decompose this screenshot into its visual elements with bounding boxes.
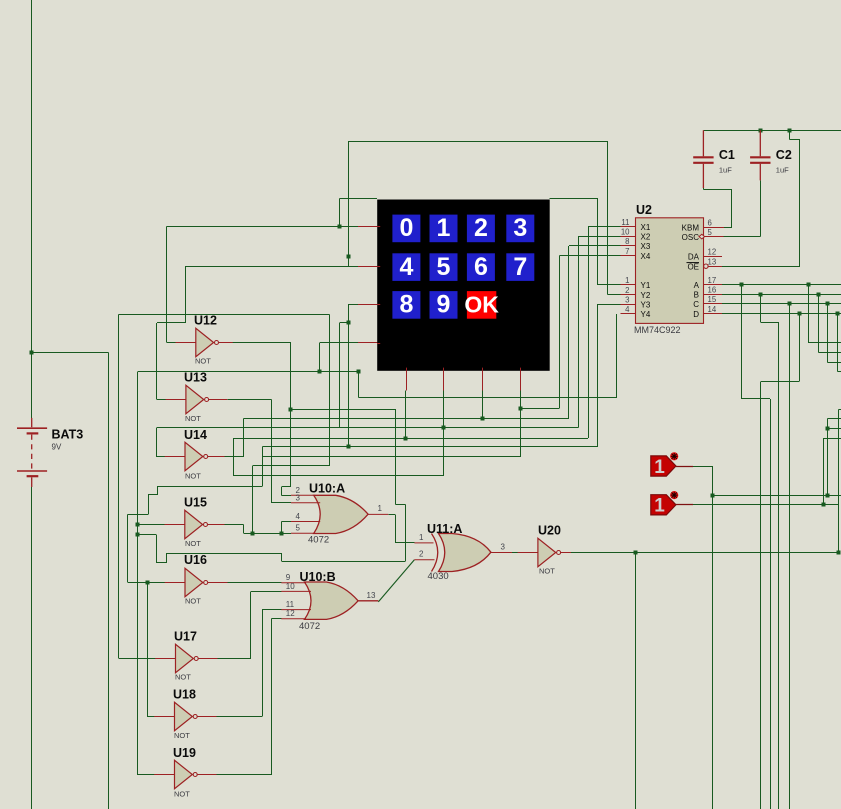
svg-text:4072: 4072: [299, 621, 320, 632]
keypad button 8: [392, 291, 420, 319]
svg-text:7: 7: [625, 247, 629, 256]
wire jog y139: [790, 139, 800, 141]
svg-text:7: 7: [513, 253, 527, 281]
svg-text:NOT: NOT: [185, 472, 201, 481]
junction U15 input tap: [136, 523, 140, 527]
wire up to X4 pin: [559, 256, 561, 408]
wire x262 up: [262, 610, 264, 717]
OR gate U10:B 4072: [305, 582, 359, 619]
wire C1 elbow h: [703, 189, 731, 191]
junction y371 x319: [318, 370, 322, 374]
svg-text:NOT: NOT: [185, 597, 201, 606]
svg-text:13: 13: [708, 257, 717, 266]
pin ticks keypad rows: [377, 226, 380, 228]
wire y533 pin5 line: [244, 533, 291, 535]
wire C down x789: [789, 304, 791, 809]
pin 2 U11:A: [414, 559, 434, 561]
svg-text:0: 0: [399, 214, 413, 242]
junction right x838: [837, 551, 841, 555]
wire U10B pin11 horizontal: [262, 609, 281, 611]
wire x712 down: [712, 466, 714, 809]
capacitor C1: [702, 130, 704, 156]
wire zig y534: [138, 534, 156, 536]
wire x250 up: [250, 591, 252, 658]
svg-text:U14: U14: [184, 428, 207, 442]
wire into Y2: [607, 294, 620, 296]
svg-text:U11:A: U11:A: [427, 522, 462, 536]
svg-text:U12: U12: [194, 314, 217, 328]
wire exit y409: [838, 409, 841, 411]
wire B jog y322: [761, 322, 779, 324]
pin U2 D: [704, 313, 723, 315]
junction C2n: [826, 302, 830, 306]
wire into X1: [588, 226, 620, 228]
wire up to X2 pin: [578, 236, 580, 428]
junction U20 out: [634, 551, 638, 555]
wire row0 down to U12: [166, 227, 168, 342]
OR gate U10:A 4072: [314, 495, 368, 533]
wire y457 col4 line: [263, 456, 521, 458]
wire up to X3 pin: [568, 246, 570, 419]
junction A2: [807, 283, 811, 287]
wire U19 output horizontal: [217, 774, 272, 776]
NOT gate U12: [196, 328, 214, 356]
wire fan Y4 y397: [359, 397, 617, 399]
wire row0 horizontal: [166, 226, 358, 228]
wire x137 down to U19: [137, 371, 139, 775]
svg-text:9: 9: [286, 573, 291, 582]
svg-text:NOT: NOT: [174, 731, 190, 740]
wire up to Y4 pin: [616, 314, 618, 398]
wire D horizontal: [722, 313, 841, 315]
wire x329 vertical: [329, 315, 331, 466]
svg-text:9V: 9V: [52, 443, 62, 452]
junction x827 y428: [826, 427, 830, 431]
wire D down x799: [799, 314, 801, 382]
svg-text:Y2: Y2: [641, 291, 651, 300]
svg-text:C2: C2: [776, 148, 792, 162]
wire x395 down to pin1: [395, 515, 397, 543]
svg-text:13: 13: [367, 591, 376, 600]
junction x252 y533: [251, 532, 255, 536]
wire row2 branch jog: [340, 322, 349, 324]
wire U17 output horizontal: [218, 658, 251, 660]
wire C2 down: [827, 304, 829, 363]
svg-text:U18: U18: [173, 688, 196, 702]
wire x127 vertical: [127, 515, 129, 583]
svg-text:1uF: 1uF: [776, 166, 789, 175]
pin U2 left y294: [621, 294, 636, 296]
wire battery top vertical: [31, 0, 33, 418]
pin 3 U11:A output: [491, 552, 512, 554]
svg-text:X4: X4: [641, 252, 651, 261]
svg-text:U20: U20: [538, 524, 561, 538]
wire x243 down: [243, 524, 245, 533]
wire jog y486: [282, 486, 291, 488]
wire U10A pin2 horizontal: [282, 495, 291, 497]
NOT gate U18: [175, 702, 193, 730]
junction A1: [740, 283, 744, 287]
junction U18 tap on U16 line: [146, 581, 150, 585]
wire x118 down to U17: [118, 315, 120, 659]
keypad button 6: [467, 253, 495, 281]
svg-text:U15: U15: [184, 496, 207, 510]
pin 2 U10:A 4072: [291, 494, 315, 496]
pin 11 U10:B 4072: [281, 609, 311, 611]
wire x827 vertical: [827, 418, 829, 495]
wire exit y428: [827, 428, 841, 430]
wire vertical x348 top: [348, 141, 350, 266]
svg-text:BAT3: BAT3: [52, 428, 84, 442]
svg-text:5: 5: [708, 228, 713, 237]
svg-text:12: 12: [286, 609, 295, 618]
svg-text:OK: OK: [464, 292, 499, 318]
wire x243 riser: [243, 418, 245, 457]
junction y495 x827: [826, 494, 830, 498]
wire x823 vertical: [823, 438, 825, 505]
pin keypad row0: [358, 226, 378, 228]
svg-text:OSC: OSC: [682, 233, 700, 242]
svg-text:Y4: Y4: [641, 310, 651, 319]
junction col4 X4: [519, 407, 523, 411]
wire U13 output horizontal: [227, 399, 271, 401]
svg-text:4030: 4030: [428, 571, 449, 582]
pin U2 A: [704, 284, 723, 286]
svg-text:1uF: 1uF: [719, 166, 732, 175]
svg-text:10: 10: [621, 227, 630, 236]
svg-text:4: 4: [296, 512, 301, 521]
wire exit y438: [823, 438, 841, 440]
wire x290 down: [290, 342, 292, 487]
wire y495 horizontal: [712, 495, 841, 497]
svg-text:6: 6: [474, 253, 488, 281]
wire x635 down: [635, 552, 637, 809]
svg-text:10: 10: [286, 582, 295, 591]
wire exit y371r: [837, 371, 841, 373]
wire zig y494: [148, 494, 158, 496]
NOT gate U17: [176, 644, 194, 672]
wire into Y1: [598, 284, 621, 286]
wire battery bottom vertical: [31, 487, 33, 809]
wire U10A output elbow: [388, 514, 395, 516]
svg-text:Y1: Y1: [641, 281, 651, 290]
junction C2 top: [759, 129, 763, 133]
svg-text:Y3: Y3: [641, 300, 651, 309]
svg-text:X2: X2: [641, 232, 651, 241]
pin 9 U10:B 4072: [281, 582, 306, 584]
svg-text:3: 3: [296, 493, 301, 502]
svg-text:OE: OE: [687, 262, 699, 271]
svg-text:D: D: [693, 310, 699, 319]
wire x262 vertical: [262, 447, 264, 487]
wire OSC horizontal: [723, 236, 760, 238]
junction U12 branch: [289, 408, 293, 412]
battery BAT3: [17, 418, 47, 487]
wire x233 down to col2 line: [233, 438, 235, 476]
wire vertical to Y1: [597, 198, 599, 285]
wire U12 output horizontal: [233, 342, 291, 344]
wire y475 col2 line: [234, 475, 444, 477]
wire fan X4 y408: [521, 408, 560, 410]
wire zig y562: [156, 562, 167, 564]
wire fan X2 y427: [157, 427, 579, 429]
junction row2 branch: [347, 321, 351, 325]
svg-text:MM74C922: MM74C922: [634, 325, 681, 335]
wire U13 input green: [157, 399, 167, 401]
pin U2 left y226: [621, 226, 636, 228]
wire U11 pin1 horizontal: [395, 542, 414, 544]
wire B2 down: [818, 294, 820, 352]
wire jog y504b: [396, 504, 406, 506]
wire B horizontal: [722, 294, 841, 296]
svg-text:12: 12: [708, 248, 717, 257]
wire A down x741: [741, 285, 743, 399]
pin U2 KBM: [704, 227, 724, 229]
wire x838 vertical: [838, 410, 840, 553]
wire U16 input horizontal: [127, 582, 166, 584]
svg-text:3: 3: [513, 214, 527, 242]
NOT gate U19: [175, 760, 193, 788]
chip U2 MM74C922 body: [636, 218, 704, 324]
wire keypad top-left y198: [339, 198, 377, 200]
svg-text:C1: C1: [719, 148, 735, 162]
wire pin4 vertical: [281, 522, 283, 534]
junction OE net top: [788, 129, 792, 133]
svg-text:1: 1: [419, 533, 424, 542]
wire x799 down to OE: [799, 140, 801, 267]
wire down to U13 input: [156, 323, 158, 400]
pin U2 B: [704, 294, 723, 296]
svg-text:U16: U16: [184, 553, 207, 567]
wire row3 horizontal: [320, 342, 359, 344]
svg-text:15: 15: [708, 295, 717, 304]
pin keypad row2: [358, 304, 378, 306]
wire exit y418: [827, 418, 841, 420]
svg-text:9: 9: [437, 291, 451, 319]
wire keypad top-right y198: [550, 198, 598, 200]
wire A horizontal: [722, 284, 841, 286]
wire into Y3: [598, 304, 621, 306]
wire zig y514: [127, 514, 148, 516]
svg-text:KBM: KBM: [682, 224, 700, 233]
svg-text:U17: U17: [174, 630, 197, 644]
junction B1: [759, 293, 763, 297]
svg-text:2: 2: [419, 550, 424, 559]
svg-text:NOT: NOT: [539, 567, 555, 576]
wire row2 branch down x339: [339, 323, 341, 428]
wire U19 input horizontal: [138, 774, 155, 776]
NOT gate U15: [185, 510, 203, 538]
NOT gate U13: [186, 385, 204, 413]
pin 5 U10:A 4072: [291, 532, 315, 534]
svg-text:NOT: NOT: [175, 673, 191, 682]
wire exit y352: [818, 352, 841, 354]
svg-text:NOT: NOT: [195, 357, 211, 366]
wire fan X3 y418: [244, 418, 570, 420]
wire U10A pin3 horizontal: [271, 502, 291, 504]
wire zig x166: [166, 553, 168, 562]
svg-text:4: 4: [399, 253, 413, 281]
wire D down x760 low: [760, 382, 762, 809]
svg-text:NOT: NOT: [185, 539, 201, 548]
wire into X3: [569, 245, 621, 247]
wire U14 input horizontal: [157, 456, 166, 458]
wire B down x779: [778, 323, 780, 809]
wire x789 stub: [789, 130, 791, 139]
wire row1 horizontal: [186, 266, 358, 268]
junction col1 X1: [404, 437, 408, 441]
wire x281 step: [281, 553, 283, 561]
pin 10 U10:B 4072: [281, 590, 311, 592]
junction B2: [817, 293, 821, 297]
keypad button 1: [430, 215, 458, 243]
junction x348 y256: [347, 255, 351, 259]
wire x271 up: [271, 619, 273, 775]
wire D2 down: [837, 314, 839, 372]
wire x358 down: [358, 371, 360, 397]
svg-text:5: 5: [296, 524, 301, 533]
wire fan Y3 y446: [263, 446, 598, 448]
NOT gate U16: [185, 568, 203, 596]
svg-text:C: C: [693, 300, 699, 309]
svg-text:NOT: NOT: [185, 414, 201, 423]
keypad button 4: [392, 253, 420, 281]
pin arrow U2 OSC: [699, 234, 705, 239]
wire exit y342: [808, 342, 841, 344]
svg-text:X1: X1: [641, 223, 651, 232]
keypad button 7: [506, 253, 534, 281]
svg-text:1: 1: [625, 276, 629, 285]
wire vertical x108: [108, 352, 110, 809]
wire U10B pin10 horizontal: [251, 591, 281, 593]
wire jog x281: [281, 487, 283, 496]
wire U15 input horizontal: [138, 524, 165, 526]
wire y561 horizontal: [282, 561, 406, 563]
svg-text:A: A: [694, 281, 700, 290]
wire battery branch horizontal: [32, 352, 109, 354]
pin keypad col2: [443, 370, 445, 390]
junction pin4 y533: [280, 532, 284, 536]
wire into X2: [579, 236, 621, 238]
wire probe1 horizontal: [693, 466, 712, 468]
svg-text:1: 1: [654, 457, 665, 478]
svg-text:16: 16: [708, 285, 717, 294]
junction probe1: [711, 494, 715, 498]
wire U11 out to U20: [512, 552, 538, 554]
pin keypad col3: [482, 370, 484, 390]
pin 4 U10:A 4072: [291, 521, 320, 523]
pin keypad row1: [358, 266, 378, 268]
wire col3 vertical: [482, 390, 484, 418]
wire col4 vertical: [520, 390, 522, 457]
svg-text:2: 2: [474, 214, 488, 242]
keypad button OK: [467, 291, 496, 319]
svg-text:1: 1: [437, 214, 451, 242]
pin keypad col1: [406, 370, 408, 390]
svg-text:B: B: [694, 290, 699, 299]
svg-text:NOT: NOT: [174, 789, 190, 798]
keypad KEYPAD-PHONE body: [377, 200, 550, 371]
junction y371 x358: [357, 370, 361, 374]
svg-text:U2: U2: [636, 203, 652, 217]
wire y409 branch: [291, 409, 396, 411]
wire row1 down: [185, 266, 187, 323]
wire x252 down: [252, 466, 254, 533]
wire KBM horizontal: [724, 227, 732, 229]
svg-text:U13: U13: [184, 371, 207, 385]
pin bubble U2 OE: [704, 264, 708, 268]
logic probe probe1 showing 1: [651, 456, 676, 476]
wire C2 down to OSC: [760, 180, 762, 236]
svg-text:U19: U19: [173, 746, 196, 760]
wire x405 down: [405, 505, 407, 561]
wire keypad top horizontal y141: [349, 141, 608, 143]
wire y371 horizontal: [138, 371, 358, 373]
pin U2 left y313: [621, 313, 636, 315]
svg-text:8: 8: [625, 237, 629, 246]
svg-text:U10:A: U10:A: [309, 482, 345, 496]
wire A2 down: [808, 285, 810, 342]
pin 3 U10:A 4072: [291, 502, 320, 504]
wire U10B pin12 horizontal: [272, 618, 282, 620]
wire vertical x339: [339, 198, 341, 226]
junction probe2 x823: [822, 503, 826, 507]
wire diagonal U10B out to U11 pin2: [378, 560, 414, 602]
wire jog y322: [157, 322, 186, 324]
wire U14 output horizontal: [225, 456, 244, 458]
wire x156 down to U14 input: [156, 428, 158, 457]
wire U16 out to pin9: [228, 582, 282, 584]
svg-text:11: 11: [621, 218, 629, 227]
junction zig tap: [136, 533, 140, 537]
wire B down x760: [760, 294, 762, 323]
wire A jog y398: [742, 398, 771, 400]
pin keypad row3: [358, 342, 378, 344]
pin U2 left y285: [621, 284, 636, 286]
svg-text:14: 14: [708, 305, 717, 314]
wire y553 horizontal: [167, 553, 282, 555]
wire into X4: [559, 255, 620, 257]
wire row2 down x348: [348, 304, 350, 446]
wire x147 down to U18: [147, 582, 149, 716]
wire U18 output horizontal: [217, 716, 263, 718]
wire row2 tail: [349, 304, 359, 306]
pin U2 left y245: [621, 245, 636, 247]
wire x271 down to pin3: [271, 399, 273, 503]
junction row2 Y3: [347, 445, 351, 449]
svg-text:X3: X3: [641, 242, 651, 251]
svg-text:4: 4: [625, 305, 630, 314]
svg-text:1: 1: [378, 504, 383, 513]
wire y486 horizontal: [158, 486, 263, 488]
junction row0 x339: [338, 225, 342, 229]
wire top y130: [703, 130, 841, 132]
wire U15 output horizontal: [225, 524, 244, 526]
svg-text:17: 17: [708, 276, 717, 285]
pin U2 left y255: [621, 255, 636, 257]
wire row3 down x319: [319, 343, 321, 371]
junction battery branch: [30, 351, 34, 355]
junction D1: [798, 312, 802, 316]
pin U2 left y304: [621, 304, 636, 306]
keypad button 3: [506, 215, 534, 243]
wire D jog y381: [761, 381, 799, 383]
svg-text:11: 11: [286, 600, 295, 609]
wire exit y362: [828, 362, 841, 364]
svg-text:3: 3: [625, 295, 629, 304]
pin ticks keypad cols: [406, 368, 408, 371]
svg-text:8: 8: [399, 291, 413, 319]
